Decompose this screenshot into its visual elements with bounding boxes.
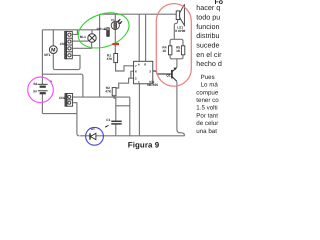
wire right drop to ground rail <box>129 97 131 136</box>
motor MT1 <box>49 46 57 54</box>
svg-text:Q1: Q1 <box>166 74 170 78</box>
svg-text:CN2: CN2 <box>59 96 66 100</box>
svg-text:1K: 1K <box>176 49 181 53</box>
wire CN1 pin 2 stub <box>73 40 88 42</box>
annotation magenta circle around battery <box>28 77 54 103</box>
wire R2 top stub <box>113 87 115 90</box>
svg-text:todo pu: todo pu <box>196 12 220 21</box>
svg-text:1K: 1K <box>162 49 167 53</box>
svg-text:una bat: una bat <box>196 128 217 135</box>
diode D1 <box>90 133 96 139</box>
svg-text:hacer q: hacer q <box>196 3 220 12</box>
resistor R4 <box>169 46 172 55</box>
wire IC pin 3 output to Q1 base <box>153 71 172 74</box>
capacitor C1 <box>111 121 121 124</box>
svg-text:hecho d: hecho d <box>196 59 222 68</box>
wire ground rail right corner up <box>177 130 185 136</box>
wire R2 bottom to C1 <box>114 96 116 121</box>
svg-text:funcion: funcion <box>196 22 219 31</box>
svg-text:distribu: distribu <box>196 31 219 40</box>
svg-text:47K: 47K <box>107 57 114 61</box>
wire frame tap to center node <box>42 74 83 97</box>
wire Vcc vertical bus <box>99 14 101 97</box>
svg-text:8 OHM: 8 OHM <box>175 29 185 33</box>
svg-text:Pues: Pues <box>201 74 215 81</box>
svg-text:B1: B1 <box>34 82 38 86</box>
connector CN2 <box>65 94 73 107</box>
wire CN1 pin 1 to top rail <box>73 30 78 35</box>
wire Q1 emitter down <box>176 82 178 130</box>
wire CN1 pin 3 to lamp bottom <box>73 42 92 48</box>
svg-text:Figura 9: Figura 9 <box>128 141 160 150</box>
speaker LS1 <box>176 4 184 25</box>
svg-text:BL1: BL1 <box>80 35 86 39</box>
wire frame left side (upper, to battery) <box>41 30 43 85</box>
svg-text:Lo má: Lo má <box>201 82 219 89</box>
wire IC top pin 8 <box>145 14 147 61</box>
annotation red stadium around output stage <box>156 4 191 87</box>
wire corner into ground rail <box>77 133 80 136</box>
svg-text:CN1: CN1 <box>60 42 67 46</box>
wire Q1 collector up to R4/R5 <box>176 59 178 67</box>
wire frame bottom <box>42 113 77 115</box>
wire branch column to right drop <box>116 105 130 107</box>
wire speaker bottom jog to R4/R5 top bus <box>174 20 177 40</box>
svg-text:en el cir: en el cir <box>196 50 222 59</box>
svg-text:Por tant: Por tant <box>196 112 218 119</box>
wire R4/R5 parallel bottom bus <box>170 55 183 59</box>
svg-text:MT1: MT1 <box>44 53 51 57</box>
wire CN2 top pin long wire <box>73 96 130 98</box>
svg-text:de celur: de celur <box>196 120 218 127</box>
connector CN1 <box>65 31 73 58</box>
svg-text:NE-555: NE-555 <box>147 83 158 87</box>
resistor R2 <box>112 88 116 96</box>
svg-text:M: M <box>51 48 55 54</box>
node arrow mark near C1 <box>105 125 108 127</box>
annotation blue circle around D1 <box>86 127 104 145</box>
svg-text:compue: compue <box>196 89 219 96</box>
resistor R5 <box>181 46 184 55</box>
svg-text:C1: C1 <box>106 118 110 122</box>
article text column <box>196 0 223 135</box>
wire IC pin 6-2 strap staircase to R2 <box>131 71 134 78</box>
wire frame top rail <box>42 29 99 31</box>
op-amp timer IC1 NE-555 <box>134 61 153 84</box>
wire CN2 bottom pin jog <box>73 103 77 134</box>
resistor R1 <box>114 54 118 63</box>
wire IC top pin 4 <box>138 14 140 61</box>
svg-text:100 uF: 100 uF <box>96 27 106 31</box>
LDR F1 <box>111 19 122 29</box>
svg-text:tener co: tener co <box>196 97 219 104</box>
annotation red tick on LDR wire <box>112 43 119 45</box>
wire top supply rail <box>100 13 177 15</box>
wire R1 bottom jog to pin7 line <box>116 63 134 71</box>
wire LDR to R1 <box>114 30 116 54</box>
svg-text:sucede: sucede <box>196 41 219 50</box>
capacitor 100uF (electrolytic body) <box>104 27 110 37</box>
wire motor feed stub <box>52 30 54 46</box>
battery B1 <box>38 80 52 93</box>
svg-text:47K: 47K <box>105 90 112 94</box>
annotation green ellipse <box>74 7 134 55</box>
svg-text:1.5 volti: 1.5 volti <box>196 105 217 112</box>
wire motor bottom U-link to CN1 pin 4 <box>53 54 80 70</box>
wire C1 bottom to ground rail <box>115 124 117 136</box>
svg-text:F1: F1 <box>111 18 115 22</box>
wire frame left side (lower, from battery) <box>41 93 43 113</box>
wire IC pin 1 to ground rail <box>138 84 140 136</box>
wire R4/R5 parallel top bus <box>170 39 183 46</box>
lamp BL1 <box>88 34 96 42</box>
wire ground rail <box>80 135 184 137</box>
wire lamp top stub <box>91 30 93 34</box>
wire LDR top stub <box>114 14 116 21</box>
transistor Q1 <box>172 68 177 82</box>
